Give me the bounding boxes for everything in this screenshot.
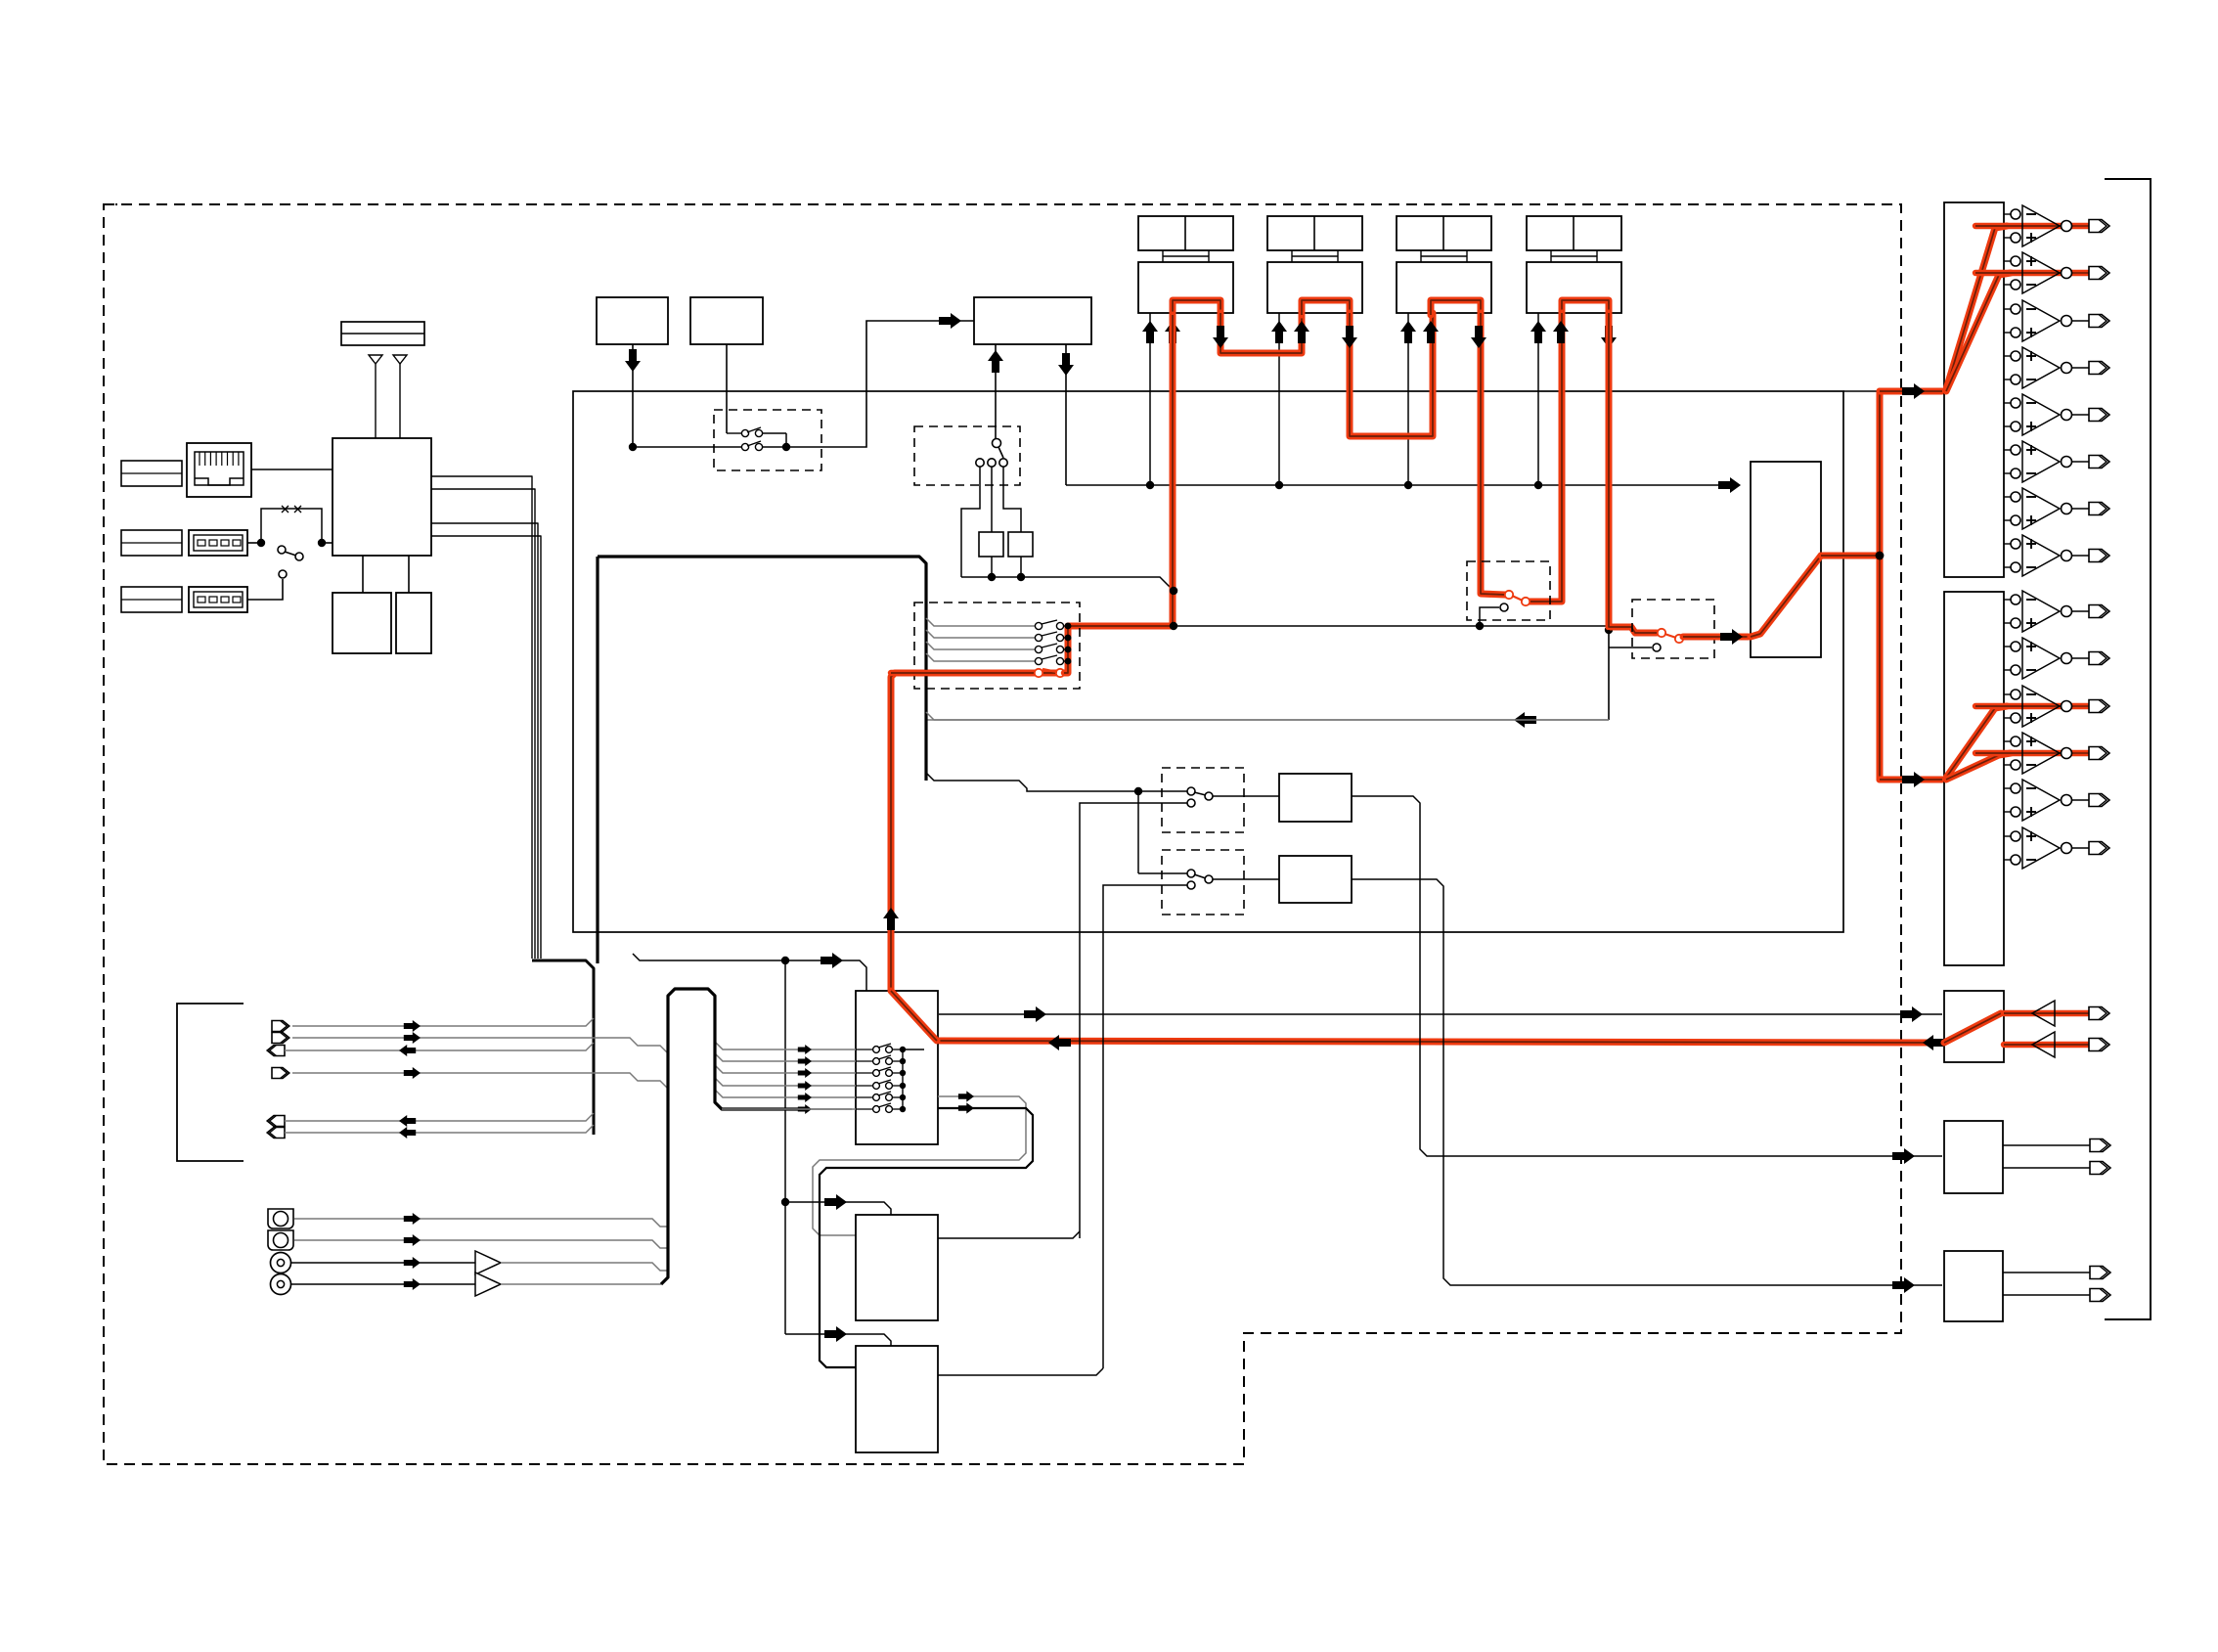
arrow into amp bank 1: [1902, 383, 1925, 399]
arrow up into tuner: [988, 350, 1003, 373]
arrow matrix row 2: [798, 1056, 812, 1066]
antenna unit box: [341, 322, 424, 345]
wire zone B box out: [1352, 879, 1942, 1285]
optical output row y1074: [267, 1046, 285, 1056]
HDMI pair link 3: [1420, 250, 1422, 262]
red loop inside HDMI 2: [1302, 300, 1350, 315]
arrow ctrl zoneDAC2: [824, 1326, 847, 1342]
matrix switch 6: [856, 1108, 873, 1110]
select row switch 1: [1035, 622, 1042, 629]
red DAC-select contacts: [1658, 629, 1665, 637]
wire box B down: [726, 344, 728, 433]
select row switch 4: [1035, 657, 1042, 664]
matrix gray out 2: [820, 1108, 1033, 1367]
wire SoC out 2: [431, 489, 535, 959]
zone B out wire 1: [2003, 1272, 2090, 1273]
optical output row y1146: [267, 1116, 285, 1127]
dashed selector box 2: [914, 426, 1020, 485]
zone DAC box 2: [856, 1346, 938, 1452]
control box A: [597, 297, 668, 344]
option switch output node: [785, 433, 787, 447]
arrow io row y1097: [404, 1067, 421, 1079]
record connector bottom: [2089, 1039, 2109, 1051]
record buffer bottom: [2032, 1032, 2055, 1057]
select row switch 3: [1035, 646, 1042, 652]
red record return rail: [937, 1041, 1942, 1043]
wire switch to zone B box: [1213, 878, 1279, 880]
DAC-select unused contact: [1608, 647, 1610, 648]
resistor R2: [1008, 532, 1033, 557]
zone B DSP box: [1279, 856, 1352, 903]
op-amp bank1 ch6: [2004, 449, 2011, 451]
op-amp bank1 ch4: [2004, 355, 2011, 357]
HDMI input stub 1: [1149, 313, 1151, 485]
arrow overlay out 4: [1601, 326, 1617, 348]
red path inside matrix: [891, 991, 937, 1041]
op-amp bank1 ch7: [2004, 496, 2011, 498]
ctrl drop column: [784, 960, 786, 1334]
red wire into DAC: [1683, 634, 1749, 641]
phono buffer 2: [475, 1272, 501, 1296]
junction ctrl rail: [781, 957, 789, 964]
HDMI pair link 1: [1162, 250, 1164, 262]
matrix gray out 1: [813, 1096, 1026, 1235]
dashed option box 1: [714, 410, 821, 470]
wire SoC out 1: [431, 476, 532, 959]
HDMI input stub 4: [1537, 313, 1539, 485]
HDMI connector pair box 4: [1527, 216, 1621, 250]
red drop HDMI3 to rec switch: [1481, 313, 1505, 595]
left IO bracket: [177, 1004, 244, 1161]
HDMI receiver box 3: [1397, 262, 1491, 313]
wire R1 to bottom: [991, 557, 993, 577]
red fork to amp 1: [1946, 226, 2007, 389]
USB select switch: [278, 546, 286, 554]
wire switch to SoC: [322, 542, 333, 544]
arrow io row y1158: [399, 1127, 416, 1139]
wire ctrl to zoneDAC1: [785, 1202, 891, 1215]
HDMI receiver box 4: [1527, 262, 1621, 313]
RCA input 2: [268, 1230, 293, 1250]
selector pivot: [993, 439, 1001, 448]
matrix input row 2: [715, 1053, 856, 1061]
op-amp bank2 ch5: [2004, 787, 2011, 789]
red bridge HDMI2-3 deep: [1350, 313, 1433, 436]
HDMI connector pair box 3: [1397, 216, 1491, 250]
op-amp bank1 ch3: [2004, 308, 2011, 310]
arrow overlay up in 1: [1142, 321, 1158, 343]
arrow record rail 2: [1900, 1006, 1923, 1022]
op-amp bank2 ch4: [2004, 740, 2011, 742]
antenna 2: [393, 355, 407, 364]
arrow ctrl zoneDAC1: [824, 1194, 847, 1210]
wire zone A column down: [1137, 791, 1139, 873]
label box LAN: [121, 461, 182, 486]
arrow into DAC top: [1718, 477, 1741, 493]
thick DSP bus left leg: [596, 557, 599, 963]
select row wire 4: [926, 653, 1035, 661]
thick analog bus: [661, 989, 798, 1284]
red rail to input select: [1042, 626, 1174, 673]
arrow io row y1049: [404, 1020, 421, 1032]
arrow io row y1061: [404, 1032, 421, 1044]
optical input row y1061: [272, 1033, 289, 1044]
op-amp bank2 ch3: [2004, 693, 2011, 695]
record io box: [1944, 991, 2004, 1062]
op-amp bank2 ch6: [2004, 835, 2011, 837]
arrow io row y1074: [399, 1045, 416, 1056]
red record out bottom: [2004, 1042, 2103, 1048]
HDMI pair link 2: [1291, 250, 1293, 262]
arrow overlay out 1: [1213, 326, 1228, 348]
arrow up red ADC: [883, 908, 899, 930]
matrix input row 6: [715, 1101, 856, 1109]
matrix switch 1: [856, 1049, 873, 1050]
wire zone A box out: [1352, 796, 1942, 1156]
red through input switch: [891, 673, 1035, 1039]
arrow matrix row 1: [798, 1045, 812, 1054]
wire bank1 feed: [1843, 390, 1941, 392]
HDMI connector pair box 2: [1267, 216, 1362, 250]
network/SoC module box: [333, 438, 431, 556]
op-amp bank1 ch5: [2004, 402, 2011, 404]
zone A connector 1: [2090, 1139, 2110, 1152]
op-amp bank1 ch1: [2004, 213, 2011, 215]
arrow red rail right: [1923, 1035, 1945, 1050]
zone B connector 1: [2090, 1267, 2110, 1279]
zone A out box: [1944, 1121, 2003, 1193]
zone A switch: [1138, 790, 1187, 792]
main processing region box: [573, 391, 1843, 932]
arrow down from tuner: [1058, 353, 1074, 376]
wire SoC bus merge: [532, 960, 594, 1135]
red bridge HDMI1-2: [1220, 313, 1302, 353]
arrow overlay repeat 4: [1553, 321, 1569, 343]
matrix switch 2: [856, 1060, 873, 1062]
zone A alt input: [1190, 801, 1192, 803]
wire contact 1 drop: [961, 467, 980, 577]
wire RJ45 to SoC: [251, 469, 333, 470]
antenna 1: [369, 355, 382, 364]
resistor R1: [979, 532, 1003, 557]
dashed zone A select box: [1162, 768, 1244, 832]
arrow record rail 1: [1024, 1006, 1046, 1022]
arrow overlay out 3: [1471, 326, 1486, 348]
zone A connector 2: [2090, 1162, 2110, 1175]
dashed zone B select box: [1162, 850, 1244, 915]
arrow into tuner: [939, 313, 961, 329]
wire switch to zone A box: [1213, 795, 1279, 797]
label box USB1: [121, 530, 182, 556]
tuner box: [974, 297, 1091, 344]
label box USB2: [121, 587, 182, 612]
matrix input row 3: [715, 1065, 856, 1073]
arrow overlay up in 2: [1271, 321, 1287, 343]
zone DAC box 1: [856, 1215, 938, 1320]
arrow matrix row 6: [798, 1104, 812, 1114]
HDMI pair link 4: [1550, 250, 1552, 262]
arrow left on return rail: [1514, 712, 1536, 728]
option switch row 1: [727, 432, 741, 434]
phono buffer 1: [475, 1251, 501, 1274]
select bus junction dots: [1065, 623, 1072, 630]
arrow matrix row 4: [798, 1081, 812, 1091]
wire SoC out 4: [431, 536, 541, 959]
red HDMI1 main drop: [1170, 315, 1176, 626]
op-amp bank1 ch8: [2004, 543, 2011, 545]
memory box 2: [396, 593, 431, 653]
HDMI input stub 2: [1278, 313, 1280, 485]
wire option to tuner: [786, 321, 974, 447]
control box B: [690, 297, 763, 344]
arrow into DAC audio: [1720, 629, 1743, 645]
arrow matrix row 5: [798, 1093, 812, 1102]
arrow matrix out 2: [958, 1102, 974, 1113]
matrix switch 3: [856, 1072, 873, 1074]
red loop inside HDMI 1: [1173, 300, 1220, 315]
red loop inside HDMI 3: [1431, 300, 1481, 315]
return rail to DSP: [927, 719, 1609, 721]
arrow overlay repeat 1: [1165, 321, 1180, 343]
op-amp bank1 ch2: [2004, 260, 2011, 262]
wire R2 to bottom: [1020, 557, 1022, 577]
record line rail black: [939, 1013, 1942, 1015]
op-amp bank2 ch2: [2004, 646, 2011, 647]
arrow matrix row 3: [798, 1068, 812, 1078]
red drop HDMI4 to DAC select: [1609, 313, 1657, 633]
arrow into zone B out box: [1892, 1277, 1915, 1293]
USB port 1: [189, 530, 247, 556]
arrow ctrl to matrix: [821, 953, 843, 968]
optical input row y1049: [272, 1021, 289, 1032]
wire zoneDAC2 out: [938, 1368, 1103, 1375]
optical input row y1097: [272, 1068, 289, 1079]
select row wire 3: [926, 642, 1035, 649]
HDMI receiver box 2: [1267, 262, 1362, 313]
wire zoneDAC1 out: [938, 1231, 1080, 1238]
RCA input 4: [271, 1274, 291, 1295]
RCA input 3 cont: [501, 1263, 668, 1271]
record connector top: [2089, 1007, 2109, 1020]
arrow RCA 4: [404, 1278, 421, 1290]
arrow matrix out 1: [958, 1091, 974, 1101]
arrow io row y1146: [399, 1115, 416, 1127]
wire USB2 to switch: [247, 579, 283, 600]
arrow RCA 3: [404, 1257, 421, 1269]
wire tuner up-feed: [995, 344, 997, 442]
arrow overlay repeat 2: [1294, 321, 1309, 343]
arrow RCA 2: [404, 1234, 421, 1246]
wire network bottom rail: [961, 577, 1174, 591]
HDMI receiver box 1: [1138, 262, 1233, 313]
amplifier bank 2 box: [1944, 592, 2004, 965]
outer dashed enclosure frame: [104, 204, 1901, 1464]
red fork to amp surround 2: [1946, 753, 2011, 780]
memory box 1: [333, 593, 391, 653]
USB bypass path with ferrites: [261, 509, 322, 543]
matrix input row 1: [715, 1042, 856, 1049]
analog bus row6 join: [722, 1108, 852, 1110]
arrow down from box A: [625, 349, 641, 372]
red rec-select contacts: [1505, 591, 1513, 599]
input matrix box: [856, 991, 938, 1144]
zone B switch: [1138, 872, 1187, 874]
HDMI input stub 3: [1407, 313, 1409, 485]
zone A select node: [1134, 787, 1142, 795]
option switch row 2: [633, 446, 741, 448]
dashed rec-select box: [1467, 561, 1550, 620]
arrow overlay repeat 3: [1423, 321, 1439, 343]
zone B alt input: [1187, 881, 1195, 889]
red loop inside HDMI 4: [1562, 300, 1609, 315]
zone B out box: [1944, 1251, 2003, 1321]
red select row wire: [891, 670, 1035, 676]
zone A out wire 2: [2003, 1167, 2090, 1169]
matrix input row 5: [715, 1090, 856, 1097]
wire contact 3 drop: [1003, 467, 1021, 532]
zone B connector 2: [2090, 1289, 2110, 1302]
wire contact 2 drop: [991, 467, 993, 532]
red DAC output split: [1821, 553, 1880, 559]
op-amp bank2 ch1: [2004, 599, 2011, 601]
zone B out wire 2: [2003, 1294, 2090, 1296]
arrow RCA 1: [404, 1213, 421, 1225]
RCA input 4 cont: [501, 1283, 661, 1285]
right output bracket: [2105, 179, 2151, 1319]
selector contacts: [976, 459, 984, 467]
red record out top: [2004, 1010, 2103, 1016]
red path inside DAC: [1751, 556, 1821, 637]
wire USB1 to switch node: [247, 542, 261, 544]
thick DSP bus corner: [598, 557, 926, 781]
RCA input 3: [271, 1253, 291, 1273]
select row switch 2: [1035, 634, 1042, 641]
zone A out wire 1: [2003, 1144, 2090, 1146]
wire tuner audio to DAC: [1066, 484, 1729, 486]
record buffer top: [2032, 1001, 2055, 1026]
selector arm: [998, 447, 1003, 458]
arrow overlay up in 4: [1530, 321, 1546, 343]
matrix input row 4: [715, 1078, 856, 1086]
DAC box: [1751, 462, 1821, 657]
wire SoC to memory 2: [408, 556, 410, 593]
red fork to amp surround 1: [1946, 706, 2007, 778]
red path inside record box: [1944, 1013, 2001, 1043]
red bank1 feed: [1880, 388, 1942, 395]
zone A DSP box: [1279, 774, 1352, 822]
matrix switch 4: [856, 1085, 873, 1087]
matrix select bus: [902, 1049, 904, 1109]
return rail fan: [926, 712, 1609, 720]
red fork to amp 2: [1946, 273, 2011, 391]
wire ctrl to zoneDAC2: [785, 1334, 891, 1346]
red rise into HDMI 4: [1530, 313, 1562, 602]
wire box A down: [632, 344, 634, 447]
select row wire 2: [926, 630, 1035, 638]
wire ctrl rail to matrix: [633, 954, 866, 991]
RJ45 connector: [187, 443, 251, 497]
arrow red rail left: [1048, 1035, 1071, 1050]
junction node box A line: [629, 443, 637, 451]
wire main source rail: [1068, 625, 1609, 627]
red select row switch: [1035, 669, 1042, 677]
arrow overlay out 2: [1342, 326, 1357, 348]
junction main rail to HDMI4 drop: [1605, 626, 1613, 634]
dashed DAC-select box: [1632, 600, 1714, 658]
red bank2 feed: [1880, 777, 1942, 783]
arrow into zone A out box: [1892, 1148, 1915, 1164]
select row wire 1: [926, 618, 1035, 626]
arrow into amp bank 2: [1902, 772, 1925, 787]
wire SoC out 3: [431, 523, 538, 959]
USB port 2: [189, 587, 247, 612]
amplifier bank 1 box: [1944, 202, 2004, 577]
wire SoC to memory 1: [362, 556, 364, 593]
red select bus up: [1064, 626, 1068, 673]
wire tuner down-feed: [1065, 344, 1067, 485]
HDMI connector pair box 1: [1138, 216, 1233, 250]
optical output row y1158: [267, 1128, 285, 1139]
matrix switch 5: [856, 1096, 873, 1098]
RCA input 1: [268, 1209, 293, 1228]
dashed input-select box: [914, 603, 1080, 689]
select bus vertical: [1067, 626, 1069, 673]
wire HDMI4 column down: [1608, 630, 1610, 720]
arrow overlay up in 3: [1400, 321, 1416, 343]
zone source feed: [926, 773, 1138, 791]
rec-select unused contact: [1480, 607, 1499, 626]
